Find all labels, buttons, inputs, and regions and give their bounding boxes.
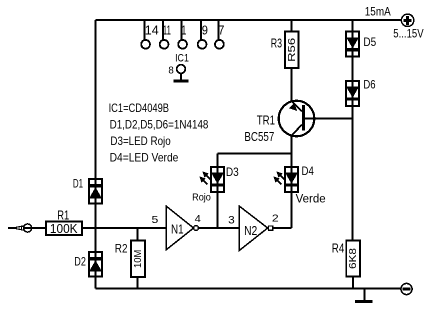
- svg-text:R3: R3: [271, 35, 282, 50]
- svg-text:8: 8: [168, 66, 174, 77]
- svg-text:R1: R1: [57, 207, 69, 222]
- svg-text:N1: N1: [171, 222, 184, 237]
- svg-text:R56: R56: [286, 38, 298, 62]
- svg-text:6K8: 6K8: [347, 248, 359, 269]
- svg-text:4: 4: [195, 213, 201, 225]
- svg-text:2: 2: [272, 213, 279, 225]
- svg-text:7: 7: [218, 23, 224, 38]
- svg-text:3: 3: [228, 215, 235, 227]
- svg-text:D2: D2: [74, 256, 86, 268]
- svg-text:D6: D6: [363, 78, 375, 92]
- svg-text:15mA: 15mA: [365, 6, 391, 18]
- svg-text:Rojo: Rojo: [192, 191, 211, 203]
- svg-text:R2: R2: [115, 241, 128, 255]
- svg-text:14: 14: [145, 23, 159, 38]
- svg-text:D1: D1: [73, 178, 83, 190]
- svg-text:TR1: TR1: [257, 112, 275, 127]
- svg-text:11: 11: [163, 23, 171, 38]
- svg-text:5: 5: [152, 214, 159, 226]
- svg-text:D1,D2,D5,D6=1N4148: D1,D2,D5,D6=1N4148: [110, 118, 209, 132]
- svg-text:D4=LED Verde: D4=LED Verde: [110, 151, 179, 165]
- svg-text:9: 9: [202, 23, 208, 38]
- svg-text:IC1: IC1: [175, 52, 189, 64]
- svg-text:R4: R4: [332, 240, 345, 255]
- svg-text:10M: 10M: [132, 250, 144, 268]
- svg-text:D4: D4: [302, 164, 315, 178]
- svg-text:N2: N2: [244, 223, 257, 238]
- svg-text:100K: 100K: [50, 221, 78, 236]
- svg-text:D5: D5: [363, 35, 376, 49]
- svg-text:Verde: Verde: [296, 194, 326, 206]
- svg-text:D3: D3: [226, 165, 239, 179]
- svg-text:5...15V: 5...15V: [393, 29, 424, 41]
- svg-text:BC557: BC557: [244, 130, 274, 144]
- svg-text:1: 1: [181, 23, 186, 38]
- svg-text:IC1=CD4049B: IC1=CD4049B: [109, 101, 169, 115]
- svg-text:D3=LED Rojo: D3=LED Rojo: [110, 134, 171, 148]
